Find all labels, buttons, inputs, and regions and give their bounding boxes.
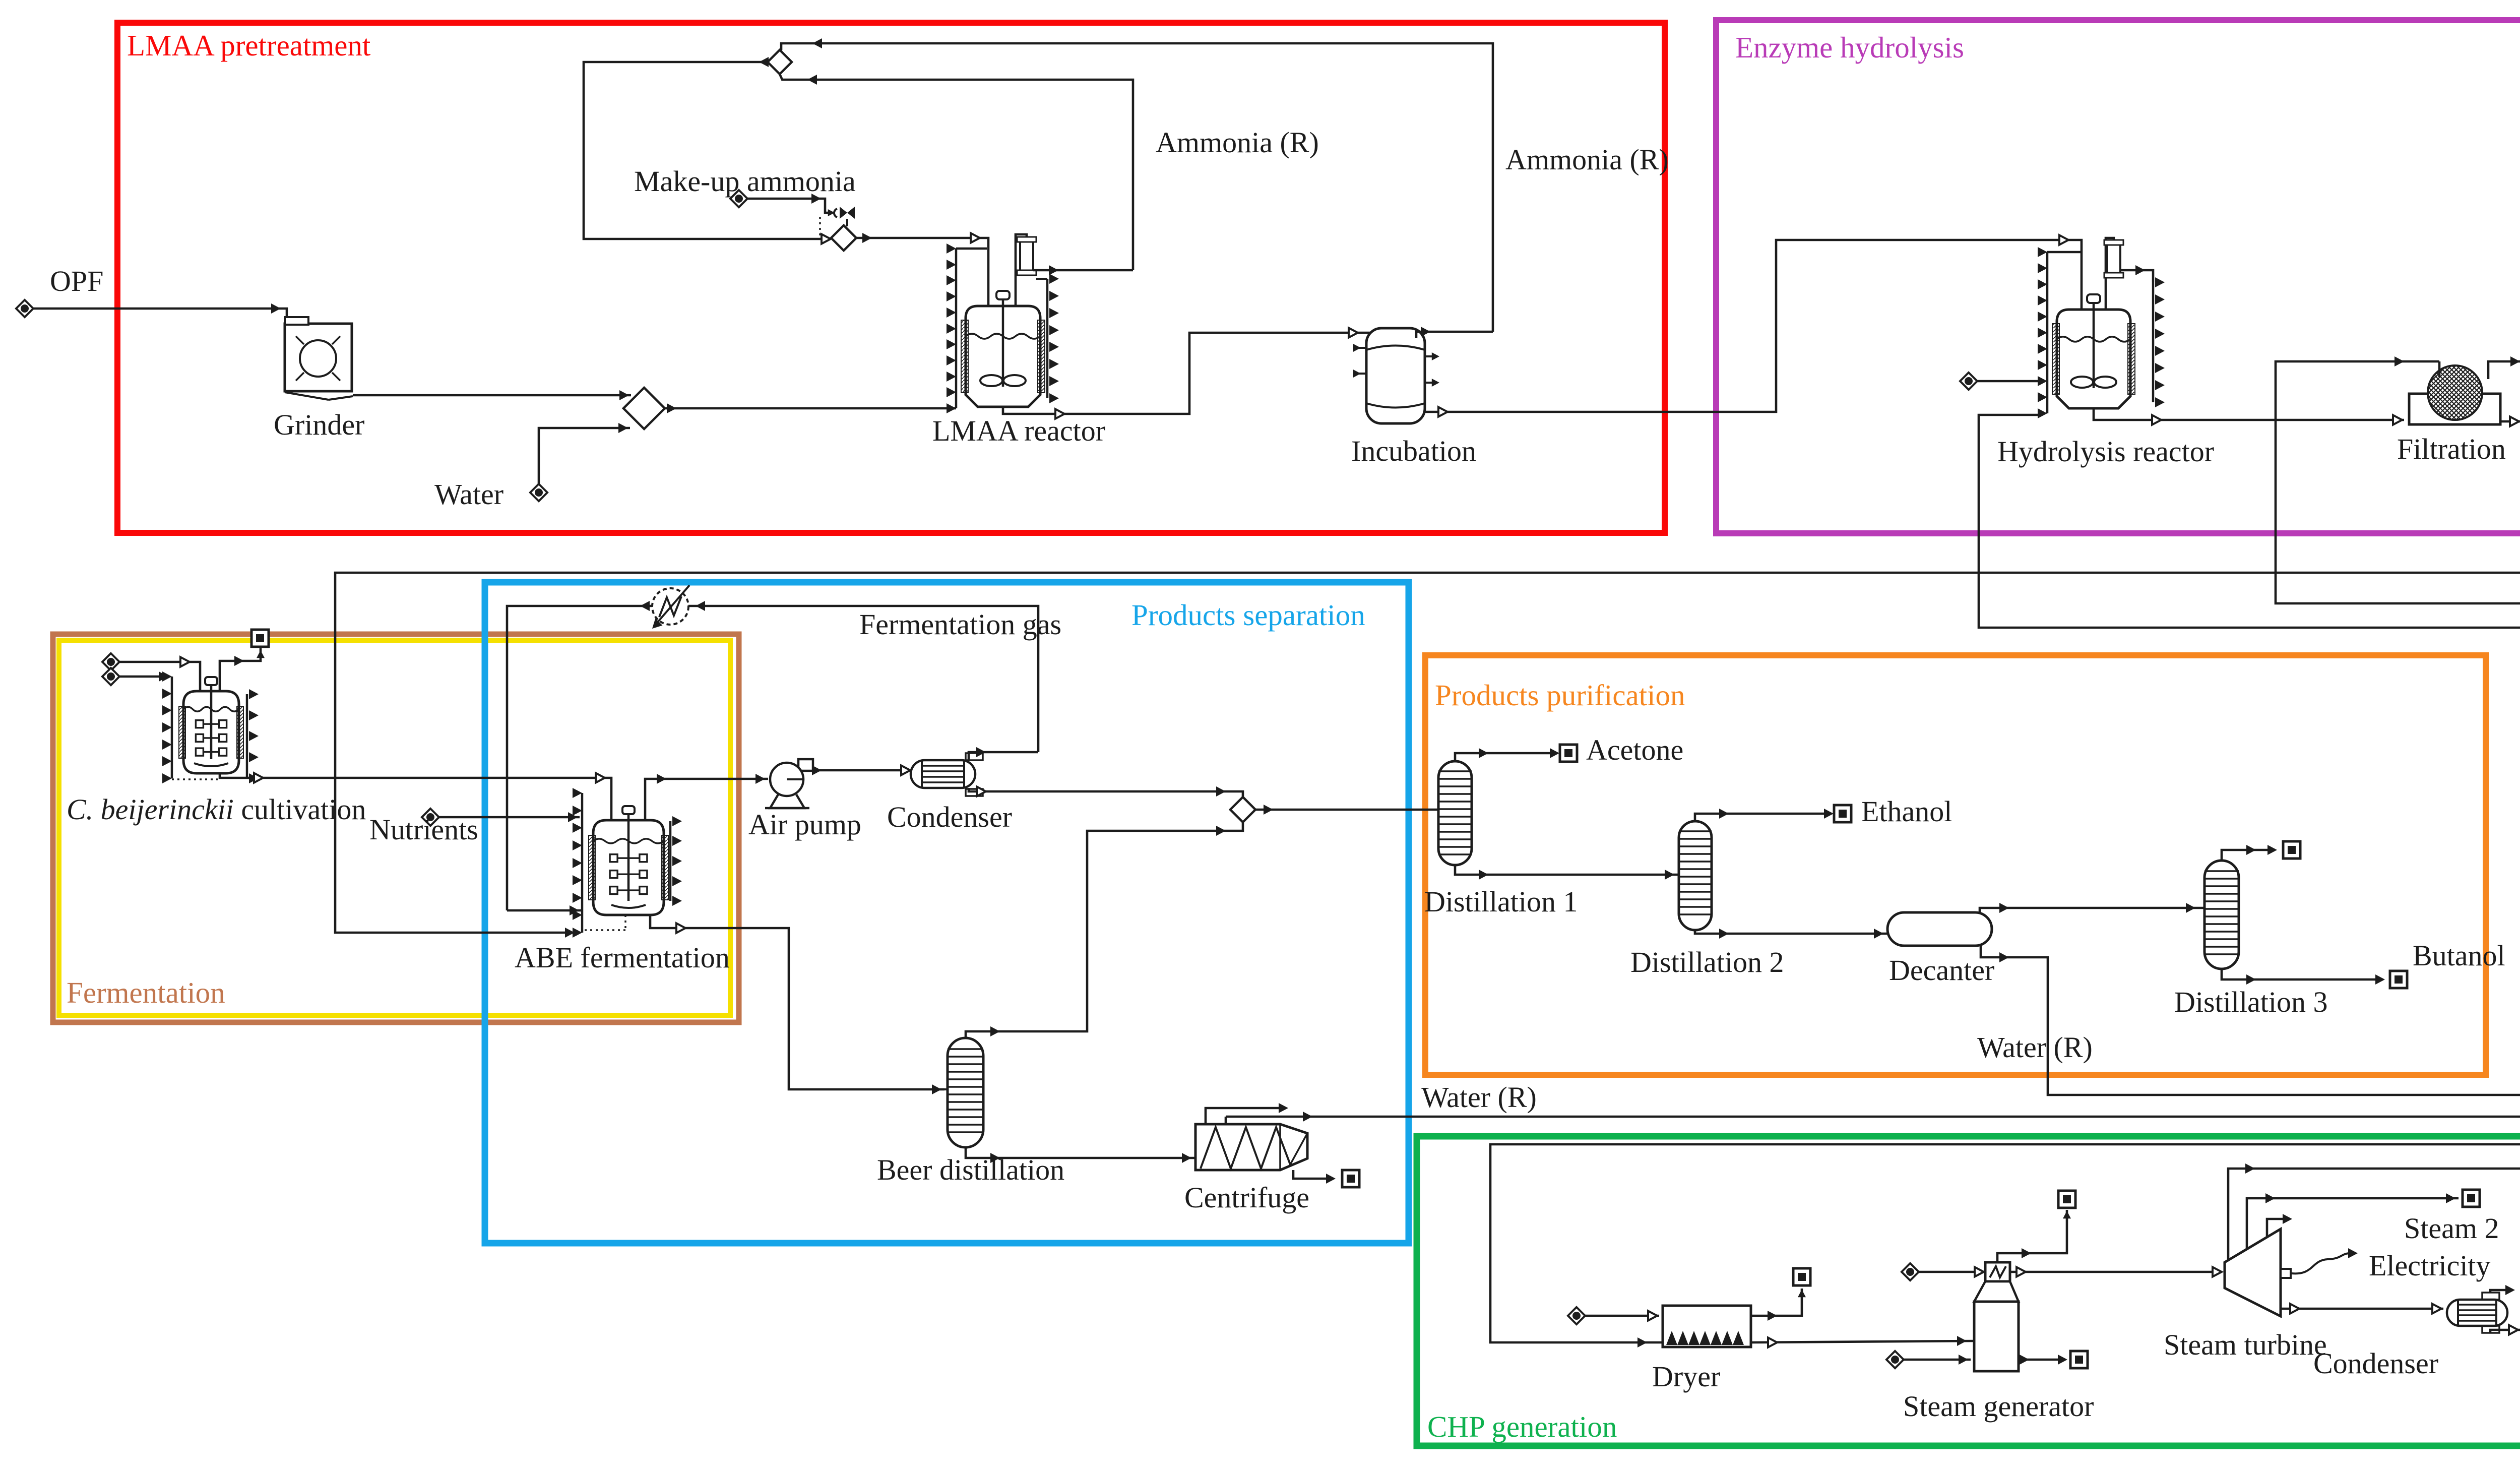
wire [765,807,809,810]
section box: Enzyme hydrolysis (purple) [1716,20,2520,533]
arrowhead [1874,929,1883,939]
arrowhead [1421,327,1430,337]
svg-text:Ammonia (R): Ammonia (R) [1156,126,1319,159]
equipment: Filtration unit [2409,394,2500,424]
arrowhead [1550,748,1559,758]
wire [2120,270,2153,282]
CHP condenser shell [2447,1300,2507,1326]
wire [507,606,1038,910]
svg-text:Make-up ammonia: Make-up ammonia [634,165,856,198]
arrowhead [159,671,168,682]
arrowhead [2267,845,2277,855]
wire [2247,1198,2459,1249]
arrowhead [180,657,190,667]
svg-text:LMAA pretreatment: LMAA pretreatment [127,29,371,62]
arrowhead [1438,407,1447,417]
equipment: Steam turbine [2225,1229,2281,1316]
arrowhead [2375,974,2385,985]
ABE left utility arrows [581,793,584,933]
arrowhead [2246,974,2256,985]
wire [2267,1219,2286,1238]
hydrolysis right utility arrows [2152,282,2155,402]
node: source [730,190,747,207]
arrowhead [1303,1112,1312,1122]
arrowhead [1999,952,2009,962]
arrowhead [234,656,244,666]
arrowhead [649,618,663,632]
wire [1904,1359,1971,1361]
wire [645,779,768,820]
node: steam generator vent sink [2058,1191,2075,1208]
valve on make-up ammonia line [840,207,855,219]
wire [2010,1271,2221,1273]
section box: CHP generation (green) [1417,1136,2520,1446]
arrowhead left [812,38,822,48]
wire [1358,373,1366,375]
equipment: Centrifuge [1195,1124,1307,1170]
arrowhead [2283,1214,2292,1224]
arrowhead [977,787,986,796]
wire [296,373,304,381]
svg-text:Centrifuge: Centrifuge [1184,1181,1309,1214]
arrowhead [1353,370,1361,378]
wire [780,74,1133,270]
arrowhead [1216,826,1226,836]
arrowhead [2290,1304,2299,1314]
wire: filtration liquid to fermentation [335,421,2520,933]
arrowhead [2063,1211,2071,1218]
Distillation 3 column [2204,861,2239,969]
svg-text:Distillation 3: Distillation 3 [2174,986,2328,1018]
arrowhead [990,1153,1000,1163]
svg-text:Water (R): Water (R) [1421,1081,1537,1114]
wire [1425,240,2082,412]
arrowhead [1719,929,1729,939]
wire [846,219,848,226]
svg-text:Decanter: Decanter [1889,954,1994,987]
arrowhead [1264,805,1273,815]
junction: mixer diamond [623,388,665,429]
arrowhead [1798,1290,1806,1297]
svg-text:Distillation 2: Distillation 2 [1630,946,1784,978]
wire [507,909,582,912]
arrowhead [901,766,910,775]
wire [1206,1108,1286,1124]
wire [969,788,1243,798]
wire [332,336,340,344]
arrowhead [1326,1174,1336,1184]
arrowhead [1637,1337,1647,1347]
arrowhead [1349,328,1358,338]
wire [1979,415,2520,1095]
wire [1490,361,2520,1342]
arrowhead [1959,1355,1968,1365]
Hydrolysis reactor [2057,310,2130,408]
wire [1751,1341,1974,1342]
wire [329,396,353,400]
arrowhead [1432,379,1439,387]
arrowhead [254,773,263,783]
wire [2094,408,2404,420]
section box: Products purification (orange) [1425,655,2486,1075]
wire [285,392,329,400]
arrowhead [971,233,980,243]
wire [1425,355,1435,357]
wire [2047,251,2081,254]
arrowhead [1719,809,1729,819]
wire [439,816,580,819]
wire [1980,908,2204,912]
arrowhead [1648,1311,1657,1321]
arrowhead [1055,409,1064,419]
wire [1416,332,1493,338]
arrowhead [1479,870,1488,880]
LMAA reactor [966,306,1040,407]
hydrolysis left utility arrows [2046,252,2049,413]
wire [1358,347,1366,349]
arrowhead [2020,1355,2029,1365]
wire [119,676,166,678]
svg-text:Products purification: Products purification [1435,679,1685,712]
arrowhead [2059,235,2068,245]
arrowhead [2348,1248,2358,1258]
node: dryer vapor sink [1793,1268,1810,1285]
wire [1036,278,1047,280]
arrowhead [2393,415,2402,425]
wire [1695,930,1887,934]
arrowhead [2509,1325,2518,1335]
node: source [102,668,119,685]
arrowhead [1957,1336,1967,1346]
svg-text:C. beijerinckii cultivation: C. beijerinckii cultivation [67,793,366,826]
Distillation 1 column [1438,761,1472,865]
svg-text:CHP generation: CHP generation [1427,1410,1617,1443]
section box: LMAA pretreatment (red) [117,23,1665,533]
svg-text:Air pump: Air pump [748,808,861,841]
wire [1751,1289,1802,1316]
arrowhead [755,774,765,784]
section box: Products separation (blue) [485,582,1409,1243]
arrowhead [696,601,705,611]
wire [787,778,804,780]
wire [781,43,1493,332]
wire [650,914,944,1089]
wire [856,238,988,307]
equipment: Condenser (CHP) [2482,1293,2499,1300]
arrowhead [2245,1163,2255,1174]
wire [2019,1359,2065,1361]
wire [1997,1210,2067,1262]
wire [1455,865,1679,875]
arrowhead [2510,417,2519,426]
svg-text:Steam turbine: Steam turbine [2164,1328,2327,1361]
node: Ethanol sink [1834,805,1851,822]
svg-text:LMAA reactor: LMAA reactor [932,414,1105,447]
arrowhead [1049,265,1058,275]
arrowhead [990,1026,1000,1036]
C. beijerinckii cultivation fermenter [183,691,239,773]
arrowhead [640,601,650,611]
wire [539,428,630,484]
svg-text:Steam generator: Steam generator [1903,1390,2094,1423]
wire [1033,269,1133,272]
junction: mixer diamond [1230,797,1255,822]
arrowhead [2510,356,2520,366]
arrowhead [822,234,831,244]
equipment: Incubation vessel [1366,328,1425,423]
arrowhead [2213,1267,2222,1277]
wire [813,769,909,772]
svg-text:Ammonia (R): Ammonia (R) [1505,143,1669,176]
LMAA reactor left utility arrows [955,249,958,408]
arrowhead [1975,1267,1984,1277]
arrowhead [1353,344,1361,352]
svg-text:Fermentation gas: Fermentation gas [859,608,1061,641]
wire [654,585,689,626]
arrowhead [2246,845,2256,855]
section box: Fermentation inner (yellow) [59,640,730,1015]
equipment: gas cooler (heat exchanger circle) [652,588,688,625]
wire [2222,969,2383,979]
wire [1455,753,1557,761]
wire [1225,1117,1227,1124]
arrowhead [2135,265,2145,275]
Condenser shell [911,760,975,788]
cultivation left utility arrows [171,677,173,778]
arrowhead [1447,805,1457,815]
wire [1919,1271,1982,1273]
arrowhead [1999,903,2009,913]
arrowhead [676,924,685,933]
arrowhead [811,194,821,204]
arrowhead [2395,356,2404,366]
arrowhead [2446,1193,2455,1203]
wire [220,773,611,820]
arrowhead [1768,1338,1777,1347]
arrowhead [1279,1103,1288,1113]
arrowhead [2432,1304,2441,1314]
wire [2281,1308,2443,1310]
wire [1585,1315,1659,1317]
arrowhead [759,57,769,67]
arrowhead [2152,415,2161,425]
wire [296,336,304,344]
arrowhead [1768,1311,1777,1321]
equipment: Decanter [1887,912,1992,946]
svg-text:Distillation 1: Distillation 1 [1424,885,1578,918]
node: centrifuge solids sink [1342,1170,1359,1187]
arrowhead [1665,870,1674,880]
wire [353,394,631,397]
arrowhead [828,209,835,216]
arrowhead [2265,1193,2275,1203]
arrowhead [257,650,265,658]
svg-text:Water (R): Water (R) [1977,1031,2093,1064]
svg-text:Electricity: Electricity [2369,1249,2491,1282]
svg-text:Products separation: Products separation [1131,598,1365,632]
equipment: Condenser (products separation) [966,753,983,760]
arrowhead [1432,352,1439,360]
wire [332,373,340,381]
node: source [1886,1351,1904,1368]
wire [747,199,833,213]
equipment: Air pump [770,794,804,808]
wire [1016,234,1027,306]
node: Acetone sink [1560,745,1577,762]
node: source [1902,1263,1919,1280]
arrowhead [570,905,579,915]
node: source [1568,1307,1585,1324]
wire [584,929,625,931]
arrowhead [807,75,817,85]
arrowhead [596,773,605,783]
wire [819,217,821,237]
wire [966,821,1243,1038]
arrowhead [2022,1248,2031,1258]
equipment: Dryer [1663,1306,1751,1347]
wire [1425,382,1435,384]
node: source [102,653,119,670]
equipment: Steam generator [1985,1262,2010,1281]
wire [33,309,287,325]
wire [1226,361,2520,1117]
node: distillation 3 overhead sink [2283,841,2300,859]
node: source [1960,373,1977,390]
svg-text:Incubation: Incubation [1351,435,1476,467]
arrowhead [1824,809,1834,819]
svg-text:Hydrolysis reactor: Hydrolysis reactor [1997,435,2214,468]
arrowhead [568,812,578,822]
arrowhead [2058,1355,2067,1365]
junction: mixer diamond [768,50,792,74]
svg-text:Ethanol: Ethanol [1861,795,1952,828]
arrowhead [2186,903,2195,913]
equipment: Grinder [285,324,352,391]
wire [2106,238,2114,310]
wire [584,62,830,239]
wire [1255,809,1438,811]
svg-text:Condenser: Condenser [887,801,1012,833]
wire [172,778,218,780]
ABE fermentation fermenter [593,820,664,915]
svg-text:Acetone: Acetone [1586,733,1683,766]
wire [2228,1169,2520,1260]
arrowhead [976,747,986,757]
arrowhead [618,423,628,433]
node: source [530,484,547,501]
wire [969,752,1038,760]
wire [665,407,956,410]
arrowhead [2017,1267,2026,1277]
svg-text:ABE fermentation: ABE fermentation [515,941,730,974]
svg-text:Steam 2: Steam 2 [2404,1212,2499,1245]
arrowhead [862,233,872,243]
arrowhead [2505,1285,2515,1295]
arrowhead [812,765,822,775]
arrowhead [932,1084,941,1094]
node: Steam 2 sink [2463,1190,2480,1207]
wire [944,1088,948,1090]
arrowhead [1182,1153,1191,1163]
Beer distillation column [948,1038,983,1147]
wire [2222,850,2275,861]
svg-text:Grinder: Grinder [274,408,364,441]
wire [1977,380,2042,383]
wire: Electricity squiggle [2292,1253,2351,1273]
wire [2490,1290,2510,1293]
svg-text:Dryer: Dryer [1652,1360,1720,1393]
wire [1293,1170,1334,1179]
arrowhead OPF feed [271,303,281,314]
node: source [422,809,439,826]
arrowhead [1216,786,1226,796]
wire [966,1147,1195,1158]
node: Butanol sink [2390,971,2407,988]
wire [1003,333,1372,414]
wire [1695,814,1832,821]
wire [956,248,987,250]
wire [2490,1330,2520,1333]
wire [624,915,626,930]
node: source [16,300,33,317]
arrowhead [657,774,666,784]
wire [2438,361,2441,377]
cultivation right utility arrows [246,694,248,778]
junction: mixer diamond [831,225,856,251]
svg-text:Filtration: Filtration [2397,433,2506,465]
arrowhead [1479,748,1488,758]
arrowhead [565,928,575,938]
svg-text:OPF: OPF [50,265,103,297]
node: cultivation vent sink [251,630,269,647]
svg-text:Condenser: Condenser [2313,1347,2438,1380]
svg-text:Butanol: Butanol [2413,939,2505,972]
arrowhead [667,403,676,413]
node: ash sink [2070,1351,2088,1368]
svg-text:Water: Water [434,478,503,511]
LMAA right utility arrows [1046,279,1049,398]
svg-text:Fermentation: Fermentation [67,976,225,1009]
wire [220,648,261,691]
arrowhead [619,390,629,400]
section box: Fermentation outer (tan) [53,634,739,1022]
Distillation 2 column [1679,821,1712,930]
svg-text:Enzyme hydrolysis: Enzyme hydrolysis [1735,31,1964,64]
ABE right utility arrows [669,821,672,901]
wire [119,662,200,691]
